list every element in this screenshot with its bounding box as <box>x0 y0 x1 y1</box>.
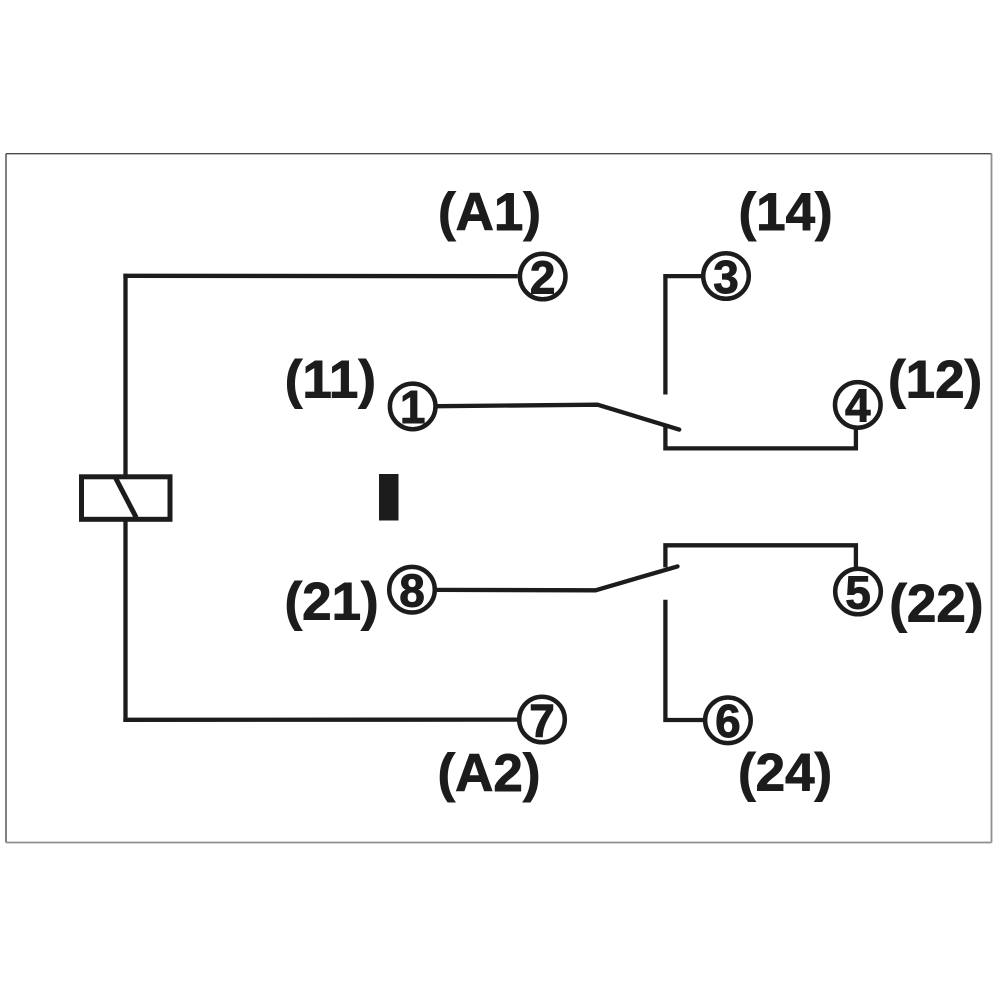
wire pole1 NC bracket to terminal4 <box>665 427 856 449</box>
wire coil top vertical <box>123 274 127 477</box>
svg-text:(A1): (A1) <box>438 183 541 242</box>
armature bar <box>379 474 399 521</box>
wire pole2 bracket to terminal5 <box>665 545 856 568</box>
svg-text:6: 6 <box>715 695 741 747</box>
wire top horizontal A1 <box>123 274 517 279</box>
svg-text:(12): (12) <box>888 351 982 410</box>
svg-text:8: 8 <box>399 565 425 617</box>
terminal 5 <box>835 566 881 618</box>
svg-text:7: 7 <box>529 694 555 746</box>
svg-text:(22): (22) <box>889 575 983 634</box>
relay coil <box>82 477 171 520</box>
wire pole2 common arm <box>437 566 677 590</box>
svg-text:(21): (21) <box>284 573 378 632</box>
terminal 6 <box>705 695 751 747</box>
svg-text:(24): (24) <box>738 744 832 803</box>
terminal 2 <box>520 251 566 303</box>
svg-text:3: 3 <box>713 251 739 303</box>
frame top <box>6 153 992 155</box>
svg-text:(A2): (A2) <box>437 744 540 803</box>
frame left <box>5 154 7 843</box>
wire coil bottom vertical <box>123 520 127 723</box>
wire terminal3 stub <box>665 276 701 394</box>
svg-text:1: 1 <box>400 381 426 433</box>
wire pole1 common arm <box>438 405 679 430</box>
svg-text:(14): (14) <box>738 183 832 242</box>
terminal 1 <box>390 381 436 433</box>
svg-text:4: 4 <box>845 380 871 432</box>
terminal 3 <box>703 251 749 303</box>
wire bottom horizontal A2 <box>123 717 517 722</box>
frame bottom <box>6 842 992 844</box>
svg-text:(11): (11) <box>285 351 376 410</box>
terminal 7 <box>519 694 565 746</box>
frame right <box>991 154 993 843</box>
svg-text:5: 5 <box>845 566 871 618</box>
terminal 8 <box>389 565 435 617</box>
wire terminal6 stub <box>665 600 703 720</box>
svg-text:2: 2 <box>530 251 556 303</box>
terminal 4 <box>835 380 881 432</box>
